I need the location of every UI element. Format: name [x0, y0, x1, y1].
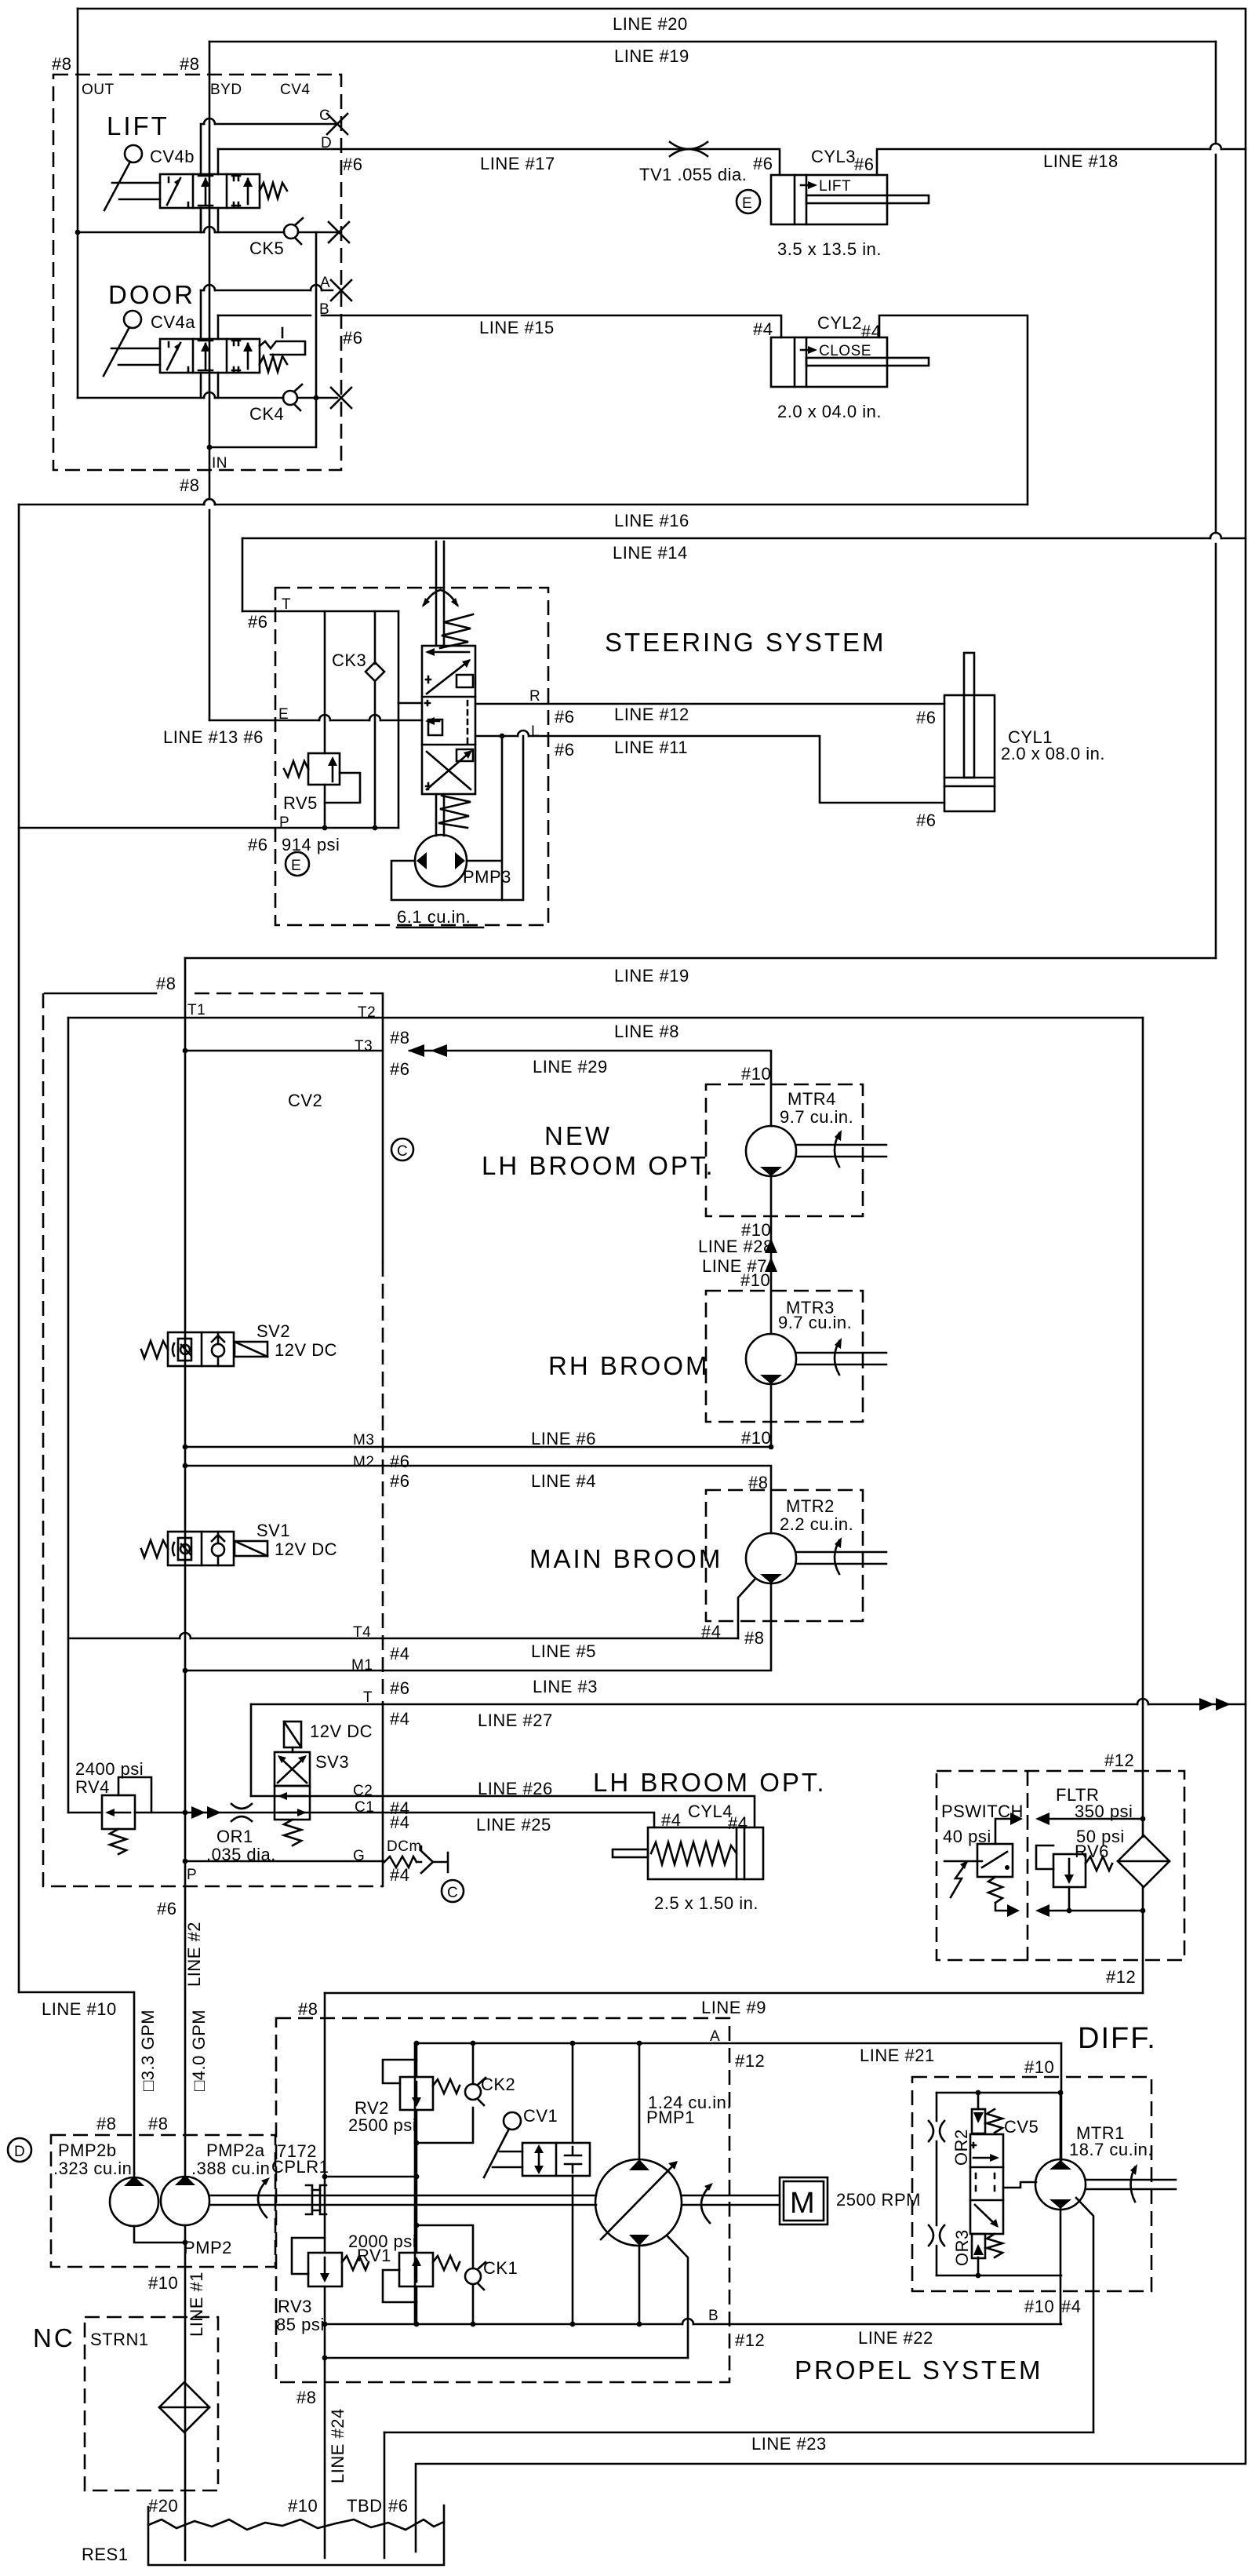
svg-text:LINE #25: LINE #25 — [476, 1815, 551, 1835]
svg-text:LINE #19: LINE #19 — [614, 46, 689, 66]
svg-text:#4: #4 — [390, 1709, 409, 1729]
svg-text:B: B — [319, 301, 329, 318]
wire RV2 column — [416, 2043, 418, 2253]
svg-text:OR1: OR1 — [216, 1827, 253, 1846]
G line terminal — [384, 1856, 417, 1867]
svg-text:#12: #12 — [735, 2330, 765, 2350]
shaft to PMP3 — [436, 794, 444, 836]
svg-text:LIFT: LIFT — [107, 111, 169, 140]
wire MTR1 ports — [1060, 2093, 1062, 2275]
wire CK5 branch down to B — [315, 232, 318, 398]
svg-text:TV1 .055 dia.: TV1 .055 dia. — [639, 165, 747, 184]
svg-text:CV5: CV5 — [1004, 2117, 1039, 2137]
svg-text:P: P — [279, 814, 289, 831]
wire LINE #24 column x414 — [324, 1993, 326, 2558]
SEC4 — [75, 1722, 1184, 1993]
motor MTR4 — [746, 1126, 796, 1176]
svg-text:12V DC: 12V DC — [275, 1340, 337, 1360]
svg-text:OR3: OR3 — [952, 2229, 972, 2266]
svg-text:STRN1: STRN1 — [90, 2330, 149, 2349]
wire CK4 line — [78, 397, 337, 399]
svg-text:D: D — [321, 135, 332, 151]
svg-text:PMP1: PMP1 — [646, 2108, 695, 2127]
svg-text:OUT: OUT — [82, 82, 115, 98]
svg-text:B: B — [708, 2308, 718, 2324]
wire propel B line / LINE #22 — [325, 2323, 1061, 2326]
check valve CK4 — [283, 391, 297, 405]
svg-text:#10: #10 — [288, 2496, 318, 2516]
wire LINE #27 / T line with jump at 1457 and end arrows — [251, 1703, 1246, 1706]
motor MTR1 — [1035, 2159, 1086, 2210]
check valve CV5 — [977, 2093, 980, 2109]
svg-text:#6: #6 — [555, 740, 574, 760]
svg-text:SV2: SV2 — [256, 1321, 290, 1341]
svg-text:L: L — [531, 723, 540, 740]
pump PMP3 — [415, 835, 467, 887]
svg-text:#10: #10 — [1024, 2057, 1054, 2077]
valve CV4b body — [160, 174, 260, 208]
plugged port A X mark — [331, 280, 351, 301]
spring CV4b — [260, 183, 287, 199]
svg-text:E: E — [291, 858, 301, 874]
wire CK5 line — [78, 231, 337, 234]
svg-text:#8: #8 — [52, 54, 71, 74]
wire MTR4 to MTR3 vertical with up arrows — [770, 1176, 773, 1334]
SEC2 — [19, 541, 1105, 927]
check valve CK1 — [465, 2268, 481, 2284]
filter FLTR diamond — [1118, 1835, 1170, 1887]
valve CV4a body — [160, 339, 260, 373]
relief valve RV3 — [308, 2253, 342, 2286]
wire L / LINE #11 — [475, 736, 944, 803]
wire MTR3 bottom to LINE6 — [770, 1384, 773, 1447]
valve CV4b center section arrows — [205, 179, 207, 204]
strainer diamond — [159, 2382, 209, 2432]
svg-text:CV4: CV4 — [280, 82, 310, 98]
check valve CK3 — [366, 662, 384, 681]
svg-text:C2: C2 — [353, 1783, 373, 1799]
svg-text:#8: #8 — [296, 2388, 316, 2407]
flow control TV1 — [670, 142, 708, 156]
svg-text:LINE #26: LINE #26 — [478, 1779, 553, 1798]
svg-text:#6: #6 — [343, 328, 362, 348]
svg-text:C: C — [447, 1885, 458, 1901]
svg-text:LINE #16: LINE #16 — [614, 511, 689, 530]
pump PMP1 variable displacement — [595, 2159, 682, 2246]
svg-text:M2: M2 — [353, 1454, 374, 1470]
svg-text:#10: #10 — [741, 1064, 771, 1084]
svg-text:#6: #6 — [388, 2496, 408, 2516]
orifice OR1 — [231, 1804, 252, 1821]
svg-text:TBD: TBD — [347, 2496, 383, 2516]
valve SV1 body — [168, 1532, 234, 1565]
plugged port C X mark — [327, 114, 347, 134]
svg-text:#8: #8 — [96, 2114, 116, 2133]
wire LINE #10 — [19, 1992, 134, 2177]
wire P / LINE #13 — [19, 827, 398, 829]
svg-text:#20: #20 — [148, 2496, 178, 2516]
cylinder CYL4 — [648, 1827, 763, 1879]
svg-text:350 psi: 350 psi — [1075, 1802, 1133, 1821]
coupler CPLR1 — [306, 2185, 326, 2214]
svg-text:OR2: OR2 — [951, 2129, 971, 2166]
svg-text:#6: #6 — [157, 1899, 176, 1918]
svg-text:LINE #21: LINE #21 — [860, 2046, 935, 2065]
svg-text:LINE #12: LINE #12 — [614, 705, 689, 724]
wire CK4 branch return U — [209, 398, 316, 447]
valve bottom section crossed arrows — [427, 752, 471, 789]
wire R / LINE #12 — [475, 703, 944, 705]
wire SV3 T-loop left edge — [250, 1704, 253, 1796]
svg-text:2.5 x 1.50 in.: 2.5 x 1.50 in. — [654, 1893, 758, 1913]
wire CV2 right edge solid segments — [382, 993, 384, 1262]
svg-text:#12: #12 — [1104, 1751, 1134, 1770]
svg-text:T: T — [363, 1689, 373, 1706]
svg-text:LINE #6: LINE #6 — [531, 1429, 596, 1448]
svg-text:#6: #6 — [854, 155, 874, 174]
check valve CK2 — [465, 2084, 481, 2100]
svg-text:T1: T1 — [187, 1002, 206, 1018]
svg-text:#4: #4 — [701, 1622, 721, 1641]
plugged port after CK4 X mark — [331, 388, 351, 408]
svg-text:#4: #4 — [861, 322, 881, 341]
valve SV3 lower box through arrows — [275, 1786, 310, 1820]
relief valve RV2 — [400, 2077, 433, 2110]
svg-text:2.2 cu.in.: 2.2 cu.in. — [780, 1514, 853, 1534]
strainer STRN1 dashed box — [85, 2317, 218, 2490]
svg-text:LINE #17: LINE #17 — [480, 154, 555, 173]
relief valve RV1 — [399, 2253, 433, 2286]
svg-text:LINE #5: LINE #5 — [531, 1641, 596, 1661]
spring below SV3 — [284, 1820, 301, 1845]
svg-text:LINE #9: LINE #9 — [701, 1998, 766, 2017]
svg-text:□3.3 GPM: □3.3 GPM — [138, 2009, 158, 2091]
svg-text:M: M — [790, 2187, 817, 2220]
wire case drain return — [325, 2357, 688, 2359]
svg-text:T4: T4 — [353, 1624, 371, 1641]
svg-text:C: C — [397, 1143, 408, 1160]
wire G line — [185, 1860, 384, 1863]
svg-text:#6: #6 — [916, 811, 936, 830]
wire x1457 vertical LINE8 down to filter — [1142, 1018, 1144, 1837]
svg-text:D: D — [14, 2144, 25, 2160]
cylinder CYL3 — [771, 175, 887, 224]
check below diff valve — [972, 2234, 985, 2258]
lever CV4b — [125, 145, 142, 162]
svg-text:LINE #27: LINE #27 — [478, 1711, 553, 1730]
svg-text:DOOR: DOOR — [108, 280, 195, 309]
motor MTR3 — [746, 1334, 796, 1384]
svg-text:CK3: CK3 — [332, 650, 366, 670]
shaft PMP2a to PMP1 — [209, 2195, 596, 2205]
svg-text:#4: #4 — [728, 1813, 748, 1833]
wire LINE #18 from CYL3 rod port to right border — [877, 149, 1246, 175]
steering valve body — [422, 646, 475, 794]
svg-text:LH BROOM OPT.: LH BROOM OPT. — [482, 1151, 715, 1180]
svg-text:#6: #6 — [390, 1471, 409, 1491]
circle E marker steering — [286, 852, 309, 876]
relief valve RV4 — [102, 1795, 135, 1829]
valve diff spool — [970, 2134, 1003, 2234]
cylinder CYL1 — [944, 695, 995, 811]
junction arrows on C1 line — [191, 1806, 206, 1819]
svg-text:#10: #10 — [740, 1270, 770, 1290]
wire CV4b bottom ports to CK5 line — [201, 208, 218, 232]
svg-text:#8: #8 — [744, 1628, 764, 1648]
wire LINE #9 — [325, 1992, 1143, 1995]
wire PMP3 loop — [391, 736, 523, 900]
wire pump suction link — [134, 2226, 185, 2243]
wire CV1 column — [572, 2043, 574, 2324]
svg-text:LINE #29: LINE #29 — [533, 1057, 608, 1077]
svg-text:T3: T3 — [355, 1038, 373, 1055]
svg-text:#4: #4 — [390, 1813, 409, 1832]
svg-text:#8: #8 — [390, 1028, 409, 1048]
svg-text:.388 cu.in: .388 cu.in — [191, 2159, 270, 2178]
circle C marker — [391, 1139, 413, 1160]
svg-text:2500 RPM: 2500 RPM — [836, 2190, 921, 2210]
svg-text:6.1 cu.in.: 6.1 cu.in. — [397, 907, 471, 927]
svg-text:LINE #28: LINE #28 — [698, 1237, 773, 1256]
svg-text:C1: C1 — [355, 1799, 374, 1816]
svg-text:PROPEL SYSTEM: PROPEL SYSTEM — [795, 2356, 1043, 2385]
SEC1 — [52, 14, 1119, 563]
svg-text:.035 dia.: .035 dia. — [206, 1845, 276, 1864]
svg-text:LINE #18: LINE #18 — [1043, 151, 1119, 171]
wire LINE #1 down to strainer — [184, 2225, 187, 2560]
valve CV4a center section arrows — [205, 344, 207, 369]
check valve CK5 — [284, 224, 298, 239]
svg-text:#8: #8 — [148, 2114, 168, 2133]
svg-text:#10: #10 — [148, 2273, 178, 2293]
check symbol SV1 right box — [212, 1543, 224, 1556]
lever CV4a — [124, 311, 141, 328]
motor MTR4 dashed box — [706, 1084, 863, 1216]
svg-text:#4: #4 — [390, 1865, 409, 1885]
svg-text:#6: #6 — [753, 154, 773, 173]
svg-text:#6: #6 — [248, 612, 267, 632]
svg-text:RV1: RV1 — [357, 2246, 391, 2265]
SEC6 — [82, 2022, 1176, 2565]
svg-text:40 psi: 40 psi — [943, 1827, 991, 1846]
wire LINE #19 lower horizontal — [185, 957, 1216, 960]
svg-text:CYL4: CYL4 — [688, 1802, 733, 1821]
svg-text:#6: #6 — [390, 1452, 409, 1471]
spring CV4a — [260, 356, 287, 372]
spring SV1 — [141, 1540, 168, 1558]
svg-text:LINE #23: LINE #23 — [751, 2434, 827, 2454]
svg-text:LH BROOM OPT.: LH BROOM OPT. — [593, 1768, 827, 1797]
svg-text:LINE #14: LINE #14 — [613, 543, 688, 563]
solenoid SV2 — [235, 1342, 267, 1357]
svg-text:T: T — [282, 596, 291, 613]
wire MTR2 second port diagonal to T4 / LINE #5 — [738, 1579, 755, 1638]
relief valve RV5 — [308, 753, 340, 785]
svg-text:2.0 x 04.0 in.: 2.0 x 04.0 in. — [777, 402, 882, 421]
svg-text:M1: M1 — [351, 1657, 373, 1674]
cylinder CYL2 — [771, 337, 887, 387]
valve CV4b right section arrows — [247, 179, 249, 204]
dashed box PMP2 — [51, 2135, 275, 2267]
wire PMP1 ports — [638, 2043, 641, 2324]
check symbol SV2 right box — [212, 1344, 224, 1357]
circle E marker — [737, 190, 760, 213]
wire C2 / LINE #26 to CYL4 — [251, 1796, 755, 1827]
svg-text:RES1: RES1 — [82, 2545, 128, 2564]
detent CV4a — [260, 341, 305, 355]
valve SV3 upper box crossed arrows — [275, 1752, 310, 1786]
svg-text:#4: #4 — [753, 319, 773, 339]
wire LINE #29 with left arrowhead — [409, 1051, 771, 1126]
svg-text:NEW: NEW — [544, 1121, 612, 1150]
valve CV4a right section arrows — [247, 344, 249, 369]
svg-text:IN: IN — [212, 455, 227, 472]
wire PMP1 case drain — [668, 2236, 688, 2358]
svg-text:18.7 cu.in.: 18.7 cu.in. — [1069, 2140, 1153, 2159]
svg-text:M3: M3 — [353, 1432, 374, 1448]
svg-text:LINE #13 #6: LINE #13 #6 — [163, 727, 264, 747]
shaft CV3 — [436, 541, 444, 646]
wire M3 / LINE #6 — [185, 1446, 771, 1448]
motor MTR2 dashed box — [706, 1490, 863, 1621]
wire LINE #21 drop to MTR1 — [1060, 2043, 1063, 2160]
rotation arrow PMP1 — [701, 2186, 710, 2223]
svg-text:CV1: CV1 — [523, 2106, 558, 2126]
svg-text:CV4a: CV4a — [151, 312, 195, 332]
wire LINE #8 / T1-T2 line — [68, 1017, 1143, 1019]
svg-text:RV4: RV4 — [75, 1777, 110, 1797]
diff inner box — [937, 2092, 1061, 2094]
svg-text:9.7 cu.in.: 9.7 cu.in. — [778, 1313, 852, 1332]
shaft PMP1 to motor — [682, 2195, 780, 2205]
svg-text:LINE #24: LINE #24 — [328, 2408, 347, 2483]
svg-text:G: G — [353, 1848, 365, 1864]
spring below valve — [438, 796, 471, 828]
wire CK3 column — [374, 611, 376, 828]
svg-text:#6: #6 — [343, 155, 362, 174]
pump PMP2b — [110, 2177, 158, 2226]
svg-text:LIFT: LIFT — [819, 178, 851, 195]
svg-text:NC: NC — [33, 2323, 75, 2352]
wire x87 vertical T1 to RV4 — [67, 1018, 70, 1813]
wire filter drain line — [1049, 1910, 1143, 1912]
SEC5 — [8, 1899, 1143, 2560]
svg-text:#12: #12 — [1106, 1967, 1136, 1987]
wire T column to valve port — [398, 611, 400, 828]
wire A riser between valves — [200, 208, 202, 339]
svg-text:#6: #6 — [390, 1678, 409, 1698]
dashed box CV2 broom manifold — [43, 993, 383, 1886]
svg-text:SV1: SV1 — [256, 1521, 290, 1540]
rotation arrows CV3 — [424, 590, 440, 605]
svg-text:#8: #8 — [298, 1999, 318, 2019]
svg-text:#12: #12 — [735, 2051, 765, 2071]
wire D port riser — [217, 149, 220, 174]
svg-text:CK2: CK2 — [481, 2075, 515, 2094]
wire OUT vertical from LINE20 left corner — [77, 9, 79, 398]
solenoid SV3 — [284, 1722, 301, 1747]
svg-text:CYL3: CYL3 — [811, 147, 856, 166]
svg-text:2.0 x 08.0 in.: 2.0 x 08.0 in. — [1001, 744, 1105, 763]
wire LINE #19 right vertical with jumps at 190 and 686 — [1215, 42, 1217, 958]
wire T3 line — [185, 1050, 383, 1052]
svg-text:LINE #10: LINE #10 — [42, 1999, 117, 2019]
svg-text:DCm: DCm — [387, 1838, 422, 1855]
wire CV4a bottom ports to CK4 line — [201, 373, 218, 398]
wire C port line to plug — [201, 124, 337, 174]
svg-text:12V DC: 12V DC — [275, 1539, 337, 1559]
svg-text:85 psi: 85 psi — [276, 2315, 325, 2334]
wire LINE #16 — [19, 504, 1028, 506]
pressure switch PSWITCH — [977, 1844, 1013, 1877]
wire M2 / LINE #4 to MTR2 — [185, 1466, 771, 1533]
svg-text:CPLR1: CPLR1 — [271, 2157, 329, 2177]
svg-text:CK1: CK1 — [483, 2258, 518, 2278]
svg-text:PMP2a: PMP2a — [206, 2141, 265, 2160]
svg-text:PMP2: PMP2 — [184, 2238, 232, 2257]
svg-text:E: E — [742, 195, 752, 212]
valve CV4a left section diagonal arrow — [167, 343, 180, 370]
motor MTR2 — [746, 1533, 796, 1583]
svg-text:PMP3: PMP3 — [463, 867, 511, 887]
svg-text:#6: #6 — [390, 1059, 409, 1079]
svg-text:LINE #15: LINE #15 — [479, 318, 555, 337]
solenoid SV1 — [235, 1541, 267, 1556]
svg-text:T2: T2 — [358, 1004, 376, 1021]
spring SV2 — [141, 1341, 168, 1358]
valve top section arrows — [428, 651, 469, 654]
circle C marker at G — [442, 1880, 464, 1902]
valve mid section closed center — [428, 720, 439, 723]
svg-text:□4.0 GPM: □4.0 GPM — [189, 2009, 209, 2091]
valve SV2 body — [168, 1332, 234, 1366]
wire MTR1 bottom to LINE22 — [1060, 2275, 1062, 2324]
svg-text:CV4b: CV4b — [150, 147, 195, 166]
circle D marker — [8, 2138, 31, 2162]
svg-text:#4: #4 — [661, 1810, 681, 1830]
svg-text:#4: #4 — [1061, 2297, 1081, 2316]
plugged port after CK5 X mark — [329, 222, 349, 242]
wire T4 / LINE #5 with jump at 236 — [68, 1638, 738, 1640]
svg-text:CLOSE: CLOSE — [819, 343, 871, 359]
svg-text:STEERING SYSTEM: STEERING SYSTEM — [605, 628, 886, 657]
wire C1 / LINE #25 to CYL4 — [68, 1813, 654, 1827]
svg-text:#8: #8 — [180, 54, 199, 74]
svg-text:#8: #8 — [748, 1473, 768, 1492]
wire BYD / IN vertical — [209, 42, 211, 720]
svg-text:MAIN BROOM: MAIN BROOM — [529, 1544, 722, 1573]
svg-text:CYL2: CYL2 — [817, 313, 862, 333]
svg-text:CK4: CK4 — [249, 404, 284, 424]
wire RV cross links — [325, 2176, 417, 2178]
svg-text:RV5: RV5 — [283, 793, 318, 813]
svg-text:R: R — [529, 688, 540, 705]
orifice OR2 — [929, 2121, 944, 2141]
svg-text:LINE #11: LINE #11 — [614, 738, 688, 757]
SEC3 — [141, 966, 886, 1730]
svg-text:914 psi: 914 psi — [282, 835, 340, 854]
svg-text:#6: #6 — [916, 708, 936, 727]
wire LINE #15 from B port to CYL2 — [218, 315, 781, 337]
svg-text:LINE #3: LINE #3 — [533, 1677, 598, 1696]
svg-text:RV6: RV6 — [1075, 1842, 1109, 1861]
svg-text:RH BROOM: RH BROOM — [548, 1351, 710, 1380]
wire left main vertical x24 — [18, 505, 20, 1992]
svg-text:#6: #6 — [555, 707, 574, 727]
svg-text:PSWITCH: PSWITCH — [941, 1802, 1024, 1821]
svg-text:LINE #19: LINE #19 — [614, 966, 689, 986]
wire LINE #17 from D port to TV1 to CYL3 — [218, 149, 780, 175]
